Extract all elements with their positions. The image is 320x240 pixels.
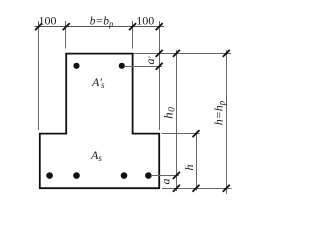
svg-text:h0: h0 xyxy=(161,107,178,119)
extension line at step level xyxy=(162,133,200,135)
tick top dim @66.2 xyxy=(63,23,70,30)
section outline (inverted-T concrete cross-section) xyxy=(40,54,159,189)
dimension line V3 (h=hp) xyxy=(226,50,228,194)
tick V3 top xyxy=(223,50,230,57)
rebar dot bottom 3 (tension steel) xyxy=(121,172,128,179)
dimension line V2 (h0 and a) xyxy=(176,50,178,191)
tick a' bottom on V1 xyxy=(156,63,163,70)
extension line web left edge xyxy=(65,21,67,49)
tick V2 top xyxy=(173,50,180,57)
extension line from tension bar centroid xyxy=(151,175,179,177)
rebar dot bottom 2 (tension steel) xyxy=(73,172,80,179)
tick a' top on V1 xyxy=(156,50,163,57)
dimension line V2b (h) xyxy=(196,132,198,191)
extension line from compression bar centroid xyxy=(125,66,162,68)
extension line bottom edge going right xyxy=(162,188,232,190)
svg-text:A′s: A′s xyxy=(91,75,105,90)
svg-text:100: 100 xyxy=(136,14,154,28)
svg-text:h=hp: h=hp xyxy=(212,100,227,125)
rebar dot top-left (compression steel) xyxy=(73,63,79,69)
tick V2 at tension bar xyxy=(173,172,180,179)
svg-text:a′: a′ xyxy=(143,55,157,64)
top dimension line xyxy=(34,26,164,28)
svg-text:h: h xyxy=(182,165,196,171)
extension line V1 / flange right edge (carries a' dimension) xyxy=(159,21,161,130)
svg-text:a: a xyxy=(159,179,173,185)
extension line web right edge xyxy=(132,21,134,49)
tick V2b bottom xyxy=(193,185,200,192)
svg-text:b=bp: b=bp xyxy=(90,16,114,29)
tick V2b top xyxy=(193,130,200,137)
tick top dim @39.8 xyxy=(35,23,42,30)
tick V2 bottom xyxy=(173,185,180,192)
tick top dim @132.6 xyxy=(129,23,136,30)
extension line top edge going right xyxy=(134,53,232,55)
rebar dot top-right (compression steel) xyxy=(119,63,125,69)
rebar dot bottom 1 (tension steel) xyxy=(46,172,53,179)
svg-text:As: As xyxy=(90,148,102,163)
extension line flange left edge xyxy=(38,21,40,130)
tick top dim @159.2 xyxy=(156,23,163,30)
rebar dot bottom 4 (tension steel) xyxy=(145,172,152,179)
svg-text:100: 100 xyxy=(39,14,57,28)
tick V3 bottom xyxy=(223,185,230,192)
